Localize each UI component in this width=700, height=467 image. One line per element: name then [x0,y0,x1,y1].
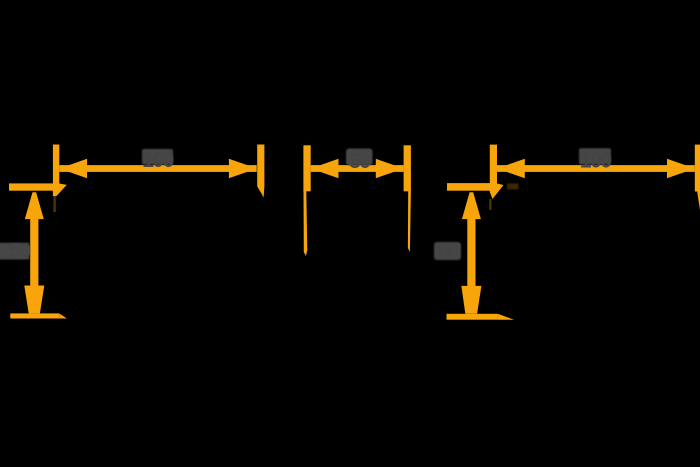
label G2 horizontal 50 blob [346,149,373,166]
dim G1 corner wedge at profile top-left [53,184,67,197]
dim G2 horizontal: extension left lower sliver [304,191,308,256]
dim G3 vertical: arrowhead up [462,192,481,219]
dim G1 vertical: extension line bottom [10,313,59,318]
dim G1 horizontal: arrowhead left [59,159,87,178]
dim G3 horizontal: extension line left [490,145,497,192]
dim G1 horizontal: extension line left [53,145,59,193]
dim G3 vertical: extension line top [447,183,497,191]
dim G2 horizontal: extension line right [404,145,411,191]
dim G1 vertical: arrowhead down [24,286,44,314]
dim G3 corner wedge at profile top-left [490,184,504,200]
svg-text:100: 100 [580,149,611,172]
dim G3 horizontal: dimension line [497,165,695,172]
dim G1 horizontal: extension right taper sliver [257,187,264,198]
svg-text:60: 60 [437,240,458,263]
label G1 horizontal 100 blob [142,149,173,165]
dim G3 vertical: dimension line shaft [467,217,475,287]
dim G3 horizontal: arrowhead right [667,159,695,178]
dim G2 horizontal: arrowhead left [311,159,339,178]
dim G3 vertical: arrowhead down [461,286,481,314]
dim G2 horizontal: extension right lower sliver [408,191,411,252]
svg-text:50: 50 [9,240,30,263]
dim G3 horizontal: extension line right [695,145,700,192]
dim G1 horizontal: dimension line [59,165,256,172]
dim G3 corner dark remnant below wedge [489,199,491,210]
svg-text:50: 50 [349,150,370,173]
label G3 horizontal 100 blob [579,148,611,164]
dim G3 horizontal: extension right lower sliver [697,191,700,210]
label G3 vertical 60 blob [434,242,461,260]
dim G1 vertical: extension line top [9,183,55,190]
dim G2 horizontal: extension line left [303,145,310,191]
dim G3 vertical: extension line bottom [447,314,498,320]
dim G2 horizontal: arrowhead right [376,159,404,178]
dim G1 horizontal: arrowhead right [229,159,257,178]
dim G1 corner dark remnant below wedge [53,196,55,212]
dim G1 vertical: arrowhead up [25,192,44,219]
svg-text:100: 100 [142,149,173,172]
dim G1 horizontal: extension line right [257,145,264,187]
dim G1 vertical: dimension line shaft [30,217,38,287]
dim G1 vertical: extension bottom taper sliver [59,313,67,318]
dim G3 vertical: extension bottom taper sliver [498,314,514,320]
dim G2 horizontal: dimension line [311,165,404,172]
dim G3 top edge dark smear [507,184,519,190]
label G1 vertical 50 blob [0,243,30,260]
dim G3 horizontal: arrowhead left [497,159,525,178]
